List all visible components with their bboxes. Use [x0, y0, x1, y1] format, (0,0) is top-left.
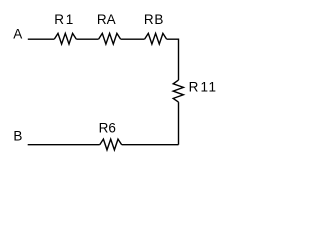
svg-text:R6: R6 [99, 121, 116, 136]
resistor RB [144, 12, 167, 44]
svg-text:R11: R11 [189, 80, 216, 95]
wire [167, 39, 179, 80]
wire [28, 144, 100, 146]
wire [122, 144, 179, 146]
svg-text:A: A [13, 26, 22, 41]
resistor RA [97, 12, 121, 44]
svg-text:B: B [13, 129, 22, 144]
wire [121, 38, 145, 40]
wire [178, 102, 180, 145]
wire [76, 38, 98, 40]
resistor R1 [54, 12, 76, 44]
wire [28, 38, 55, 40]
svg-text:RB: RB [144, 12, 164, 27]
resistor R11 [173, 80, 216, 103]
resistor R6 [99, 121, 122, 150]
svg-text:RA: RA [97, 12, 116, 27]
svg-text:R1: R1 [54, 12, 73, 27]
